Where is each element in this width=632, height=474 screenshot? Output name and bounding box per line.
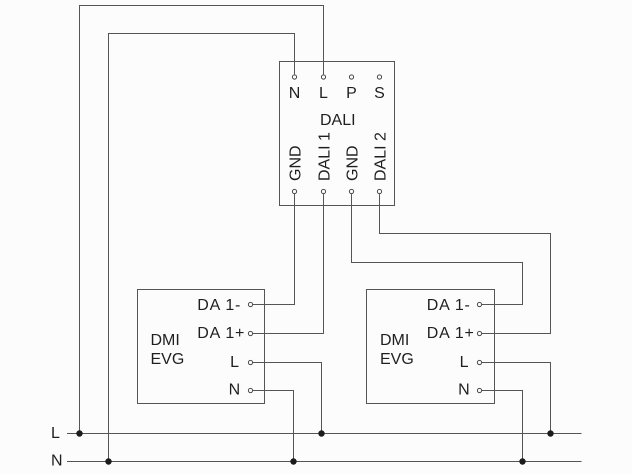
- svg-text:DA 1+: DA 1+: [427, 325, 475, 342]
- svg-text:DALI: DALI: [320, 112, 356, 129]
- junction: left ballast N on N rail: [290, 458, 296, 464]
- svg-text:S: S: [374, 85, 385, 102]
- wire: left ballast L terminal right then down to L mains rail: [253, 363, 322, 434]
- junction: left ballast L on L rail: [318, 430, 324, 436]
- wire: DALI unit GND (2nd) down, right, down, left to DA 1- of right ballast: [352, 194, 523, 304]
- svg-text:N: N: [51, 453, 63, 470]
- terminal DALI 1 of DALI unit (pin circle): [321, 189, 325, 193]
- terminal DA 1+ of right ballast (pin circle): [477, 331, 481, 335]
- svg-text:L: L: [230, 354, 239, 371]
- terminal P of DALI unit (pin circle, unconnected): [349, 75, 353, 79]
- svg-text:GND: GND: [345, 145, 362, 181]
- junction: right ballast N on N rail: [519, 458, 525, 464]
- terminal N of DALI unit (pin circle): [292, 75, 296, 79]
- svg-text:L: L: [319, 85, 328, 102]
- terminal DA 1- of right ballast (pin circle): [477, 302, 481, 306]
- svg-text:L: L: [51, 425, 60, 442]
- terminal DA 1- of left ballast (pin circle): [248, 302, 252, 306]
- terminal DALI 2 of DALI unit (pin circle): [377, 189, 381, 193]
- terminal GND (2nd) of DALI unit (pin circle): [349, 189, 353, 193]
- svg-text:DA 1-: DA 1-: [197, 297, 241, 314]
- junction: supply drop on N rail: [105, 458, 111, 464]
- terminal N of right ballast (pin circle): [477, 388, 481, 392]
- terminal N of left ballast (pin circle): [248, 388, 252, 392]
- terminal DA 1+ of left ballast (pin circle): [248, 331, 252, 335]
- svg-text:EVG: EVG: [151, 351, 185, 368]
- wire: DALI unit L terminal up, across top, down to L mains rail: [80, 6, 324, 434]
- terminal L of left ballast (pin circle): [248, 360, 252, 364]
- terminal GND (1st) of DALI unit (pin circle): [292, 189, 296, 193]
- svg-text:EVG: EVG: [380, 351, 414, 368]
- junction: supply drop on L rail: [76, 430, 82, 436]
- DALI control unit box U1: [280, 62, 395, 206]
- svg-text:DA 1-: DA 1-: [427, 297, 471, 314]
- wire: DALI unit DALI 1 down and left to DA 1+ of left ballast: [253, 194, 324, 333]
- terminal L of DALI unit (pin circle): [321, 75, 325, 79]
- svg-text:L: L: [460, 354, 469, 371]
- svg-text:P: P: [346, 85, 357, 102]
- junction: right ballast L on L rail: [547, 430, 553, 436]
- svg-text:DMI: DMI: [380, 332, 409, 349]
- svg-text:N: N: [229, 382, 241, 399]
- wire: right ballast N terminal right then down to N mains rail: [482, 391, 523, 462]
- wire: left ballast N terminal right then down to N mains rail: [253, 391, 294, 462]
- wire: right ballast L terminal right then down to L mains rail: [482, 363, 551, 434]
- svg-text:GND: GND: [288, 145, 305, 181]
- wire: DALI unit GND (1st) down and left to DA 1- of left ballast: [253, 194, 295, 304]
- svg-text:N: N: [289, 85, 301, 102]
- wire: L mains rail: [67, 433, 582, 435]
- ballast box U3 DMI EVG (right): [367, 290, 495, 404]
- terminal S of DALI unit (pin circle, unconnected): [377, 75, 381, 79]
- svg-text:DA 1+: DA 1+: [197, 325, 245, 342]
- svg-text:DALI 1: DALI 1: [317, 132, 334, 181]
- svg-text:DALI 2: DALI 2: [373, 132, 390, 181]
- svg-text:DMI: DMI: [151, 332, 180, 349]
- terminal L of right ballast (pin circle): [477, 360, 481, 364]
- wire: N mains rail: [67, 461, 582, 463]
- wire: DALI unit N terminal up, across, down to N mains rail: [109, 34, 295, 462]
- svg-text:N: N: [458, 382, 470, 399]
- ballast box U2 DMI EVG (left): [138, 290, 265, 404]
- wire: DALI unit DALI 2 down, right, down, left to DA 1+ of right ballast: [380, 194, 551, 333]
